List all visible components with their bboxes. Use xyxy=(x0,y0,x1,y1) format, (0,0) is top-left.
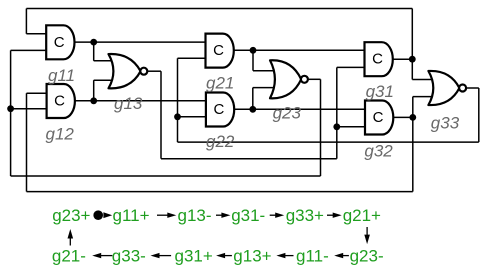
svg-text:g32: g32 xyxy=(364,142,393,161)
svg-text:g31: g31 xyxy=(366,82,394,101)
svg-text:g23: g23 xyxy=(273,103,302,122)
svg-text:g11-: g11- xyxy=(296,246,329,265)
svg-text:g23+: g23+ xyxy=(52,206,90,225)
svg-text:g23-: g23- xyxy=(350,246,384,265)
svg-text:g11+: g11+ xyxy=(113,206,150,225)
svg-text:g13-: g13- xyxy=(178,206,212,225)
svg-text:g13: g13 xyxy=(114,94,143,113)
svg-text:g22: g22 xyxy=(206,132,235,151)
svg-text:g21: g21 xyxy=(206,73,234,92)
svg-text:g21+: g21+ xyxy=(343,206,381,225)
svg-text:C: C xyxy=(54,34,65,51)
svg-text:g31-: g31- xyxy=(231,206,265,225)
svg-text:g31+: g31+ xyxy=(175,246,213,265)
svg-text:C: C xyxy=(372,51,383,68)
svg-text:C: C xyxy=(54,93,65,110)
svg-text:g12: g12 xyxy=(46,125,75,144)
svg-text:g33: g33 xyxy=(431,114,460,133)
svg-text:C: C xyxy=(213,42,224,59)
svg-text:g13+: g13+ xyxy=(233,246,271,265)
svg-text:C: C xyxy=(213,101,224,118)
svg-text:g11: g11 xyxy=(48,66,75,85)
svg-text:g33+: g33+ xyxy=(286,206,324,225)
svg-text:g21-: g21- xyxy=(52,246,86,265)
svg-text:C: C xyxy=(373,109,384,126)
svg-text:g33-: g33- xyxy=(112,246,146,265)
